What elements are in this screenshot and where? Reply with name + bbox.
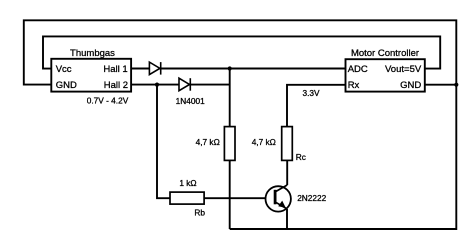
resistor Rb 1 kOhm <box>170 178 205 218</box>
svg-text:Motor Controller: Motor Controller <box>351 48 419 59</box>
svg-text:Hall 2: Hall 2 <box>104 80 128 91</box>
wire Hall2 junction down to Rb <box>157 85 170 199</box>
wire Rc bottom to collector <box>286 160 288 185</box>
wire Hall 2 to R1 column <box>131 84 230 86</box>
diode D1 (Hall 1 line) <box>149 62 160 75</box>
resistor R1 4,7 kOhm <box>196 127 235 161</box>
svg-text:0.7V - 4.2V: 0.7V - 4.2V <box>87 96 129 106</box>
wire outer GND loop <box>24 20 457 229</box>
junction ADC node <box>228 66 232 70</box>
svg-text:Hall 1: Hall 1 <box>103 64 127 75</box>
svg-text:Vcc: Vcc <box>56 64 72 75</box>
svg-text:GND: GND <box>56 80 77 91</box>
svg-text:ADC: ADC <box>348 64 368 75</box>
module Motor Controller <box>346 48 425 92</box>
wire R1 bottom to ground rail <box>229 160 231 229</box>
wire Motor GND to right rail <box>425 84 457 86</box>
wire Rb to transistor base <box>204 197 274 199</box>
wire Vcc to Vout=5V loop <box>43 36 440 68</box>
svg-text:4,7 kΩ: 4,7 kΩ <box>252 137 276 147</box>
wire ADC node down to R1 <box>229 69 231 127</box>
emitter diagonal <box>276 202 287 209</box>
base bar <box>274 190 277 205</box>
svg-text:Vout=5V: Vout=5V <box>385 64 422 75</box>
svg-text:Rx: Rx <box>348 80 360 91</box>
junction Hall2 node <box>155 83 159 87</box>
wire emitter to ground rail <box>286 209 288 229</box>
collector diagonal <box>276 185 287 192</box>
resistor Rc 4,7 kOhm <box>252 127 306 163</box>
transistor Q1 2N2222 <box>266 185 327 212</box>
svg-text:1 kΩ: 1 kΩ <box>179 178 196 188</box>
svg-text:3.3V: 3.3V <box>302 88 320 98</box>
svg-text:Rc: Rc <box>296 152 306 162</box>
svg-text:Rb: Rb <box>194 208 205 218</box>
wire Rx to Rc <box>287 85 346 127</box>
svg-text:4,7 kΩ: 4,7 kΩ <box>196 137 220 147</box>
junction GND right rail <box>454 83 458 87</box>
svg-text:GND: GND <box>400 80 421 91</box>
emitter arrow <box>278 201 286 208</box>
svg-text:1N4001: 1N4001 <box>176 96 205 106</box>
svg-text:2N2222: 2N2222 <box>297 193 326 203</box>
diode D2 1N4001 <box>176 78 205 106</box>
wire Hall 1 to ADC <box>131 68 345 70</box>
svg-text:Thumbgas: Thumbgas <box>70 48 115 59</box>
module Thumbgas <box>51 48 131 106</box>
